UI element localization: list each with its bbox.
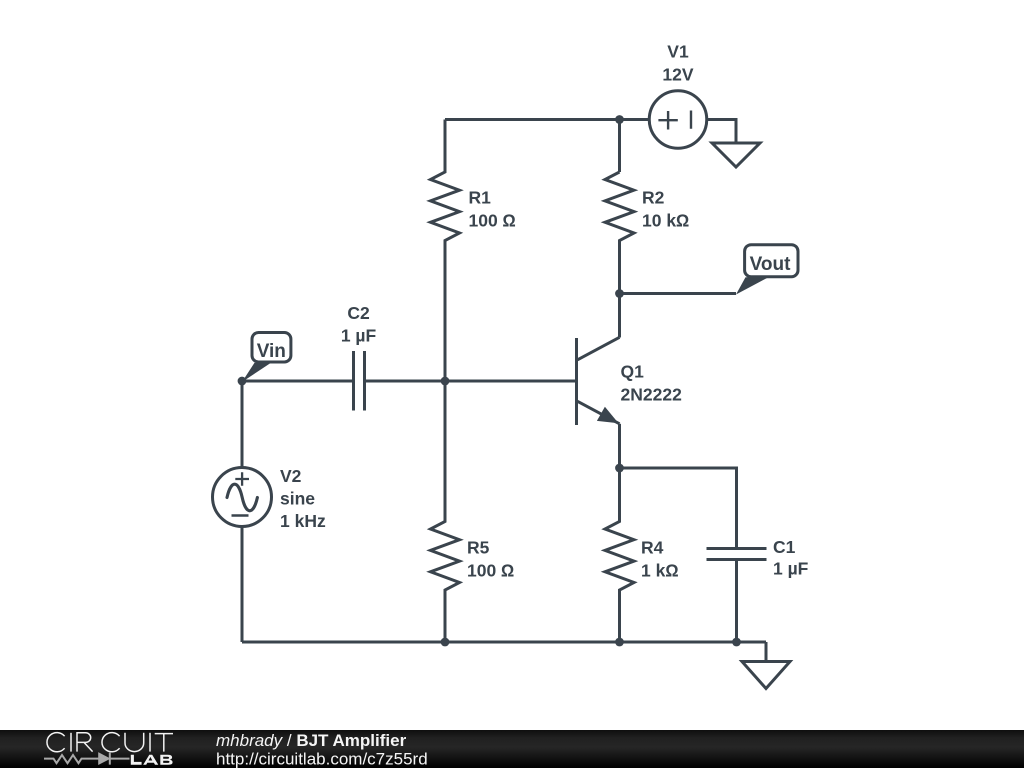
- node C1 bottom: [732, 638, 741, 647]
- svg-text:1 kΩ: 1 kΩ: [641, 561, 679, 581]
- svg-text:R5: R5: [467, 538, 490, 558]
- wire base: [242, 380, 352, 383]
- ground (bottom): [742, 662, 790, 689]
- node collector/Vout junction: [615, 289, 624, 298]
- svg-text:1 kHz: 1 kHz: [280, 511, 326, 531]
- node divider/base junction: [441, 377, 450, 386]
- wire emitter vertical: [618, 424, 621, 468]
- node top rail / R2 junction: [615, 115, 624, 124]
- svg-text:Q1: Q1: [621, 362, 645, 382]
- svg-text:100 Ω: 100 Ω: [467, 561, 515, 581]
- logo LAB: [131, 755, 173, 765]
- wire collector vertical: [618, 294, 621, 338]
- wire R2 top lead: [618, 120, 621, 173]
- svg-text:R4: R4: [641, 538, 664, 558]
- wire top rail from R1 top to V1: [445, 118, 649, 121]
- svg-text:10 kΩ: 10 kΩ: [642, 211, 690, 231]
- wire C2 to divider node: [366, 380, 577, 383]
- svg-text:sine: sine: [280, 489, 315, 509]
- node emitter junction: [615, 464, 624, 473]
- node Vin: [238, 377, 247, 386]
- voltage source V1: [649, 91, 707, 149]
- resistor R1: [431, 120, 460, 382]
- wire bottom rail to ground: [765, 642, 768, 662]
- svg-text:100 Ω: 100 Ω: [469, 211, 517, 231]
- node R5 bottom: [441, 638, 450, 647]
- footer title line: [216, 731, 407, 750]
- svg-text:http://circuitlab.com/c7z55rd: http://circuitlab.com/c7z55rd: [216, 749, 428, 768]
- voltage source V2: [213, 381, 272, 642]
- svg-text:R2: R2: [642, 188, 665, 208]
- transistor Q1: [577, 337, 620, 425]
- svg-text:R1: R1: [469, 188, 492, 208]
- svg-text:mhbrady / BJT Amplifier: mhbrady / BJT Amplifier: [216, 731, 407, 750]
- logo CIRCUIT wordmark: [47, 733, 173, 752]
- resistor R2: [605, 172, 634, 294]
- wire emitter to C1: [620, 468, 737, 548]
- svg-text:C2: C2: [347, 303, 370, 323]
- flag Vout: [736, 245, 798, 295]
- resistor R4: [605, 468, 634, 642]
- svg-text:Vin: Vin: [257, 341, 286, 362]
- resistor R5: [431, 381, 460, 642]
- svg-text:12V: 12V: [662, 65, 693, 85]
- svg-text:Vout: Vout: [750, 254, 791, 275]
- svg-text:1 µF: 1 µF: [341, 326, 377, 346]
- footer bar: [0, 730, 1024, 768]
- logo resistor-diode strip: [44, 753, 130, 765]
- ground (V1): [712, 143, 760, 167]
- wire bottom rail: [242, 641, 766, 644]
- svg-text:1 µF: 1 µF: [773, 559, 809, 579]
- wire V1 to ground: [707, 120, 736, 144]
- flag Vin: [242, 333, 291, 383]
- svg-text:V2: V2: [280, 466, 302, 486]
- capacitor C1: [707, 549, 767, 643]
- node R4 bottom: [615, 638, 624, 647]
- svg-text:2N2222: 2N2222: [621, 385, 683, 405]
- svg-text:C1: C1: [773, 537, 796, 557]
- wire Vout branch: [620, 292, 737, 295]
- svg-text:V1: V1: [667, 42, 689, 62]
- capacitor C2: [354, 351, 365, 411]
- footer url line: [216, 749, 428, 768]
